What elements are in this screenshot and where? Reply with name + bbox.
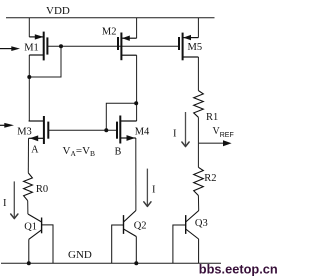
svg-text:VDD: VDD	[46, 5, 70, 17]
wire M4 diode loop to gate bus	[106, 103, 136, 130]
svg-text:R0: R0	[36, 184, 48, 195]
svg-text:M5: M5	[188, 42, 203, 53]
wire gate bus M1-M2-M5	[47, 45, 178, 47]
svg-text:Q1: Q1	[24, 222, 37, 233]
wire node B down to Q2 collector	[135, 138, 137, 211]
transistor M4	[117, 116, 137, 144]
wire GND rail	[1, 262, 221, 264]
svg-text:I: I	[173, 129, 177, 140]
wire M2 drain down to node	[136, 55, 138, 121]
svg-text:bbs.eetop.cn: bbs.eetop.cn	[199, 262, 278, 277]
svg-text:R2: R2	[204, 173, 216, 184]
wire gate bus M3-M4	[48, 129, 117, 131]
svg-text:A: A	[31, 144, 39, 155]
wire R0 to Q1 collector	[27, 201, 29, 214]
wire node A down to R0	[27, 138, 29, 173]
wire M2 source to VDD	[136, 18, 138, 39]
wire VDD rail	[6, 17, 215, 19]
transistor Q1	[28, 214, 53, 263]
svg-text:Q3: Q3	[195, 218, 208, 229]
wire M5 drain down to R1	[197, 57, 199, 91]
arrow current I right branch	[182, 112, 189, 147]
transistor M5	[179, 33, 198, 61]
resistor R0	[24, 173, 33, 201]
arrow current I middle branch	[144, 169, 151, 207]
svg-text:I: I	[3, 198, 7, 209]
transistor Q2	[112, 211, 137, 264]
transistor M3	[29, 116, 49, 144]
svg-text:M1: M1	[24, 42, 39, 53]
wire M5 source to VDD	[197, 18, 199, 38]
node dot M3-M4 gate junction	[104, 128, 108, 132]
svg-text:I: I	[152, 185, 156, 196]
svg-text:M2: M2	[102, 26, 117, 37]
node dot M1 drain junction	[27, 75, 31, 79]
node dot M1 diode junction	[59, 44, 63, 48]
arrow VREF output	[198, 140, 231, 146]
node dot Q2 emitter GND	[134, 261, 138, 265]
wire M1 source to VDD	[28, 18, 30, 37]
svg-text:M4: M4	[135, 127, 150, 138]
node dot M2-M4 drain junction	[134, 101, 138, 105]
transistor M1	[29, 32, 47, 61]
transistor M2	[118, 33, 137, 61]
resistor R2	[194, 167, 204, 195]
arrow input pointer at M3	[0, 123, 14, 128]
svg-text:M3: M3	[17, 127, 32, 138]
wire M1 gate-drain loop	[29, 46, 61, 77]
resistor R1	[194, 91, 204, 118]
svg-text:GND: GND	[68, 249, 92, 261]
wire M1 drain down to M3 drain	[28, 55, 30, 121]
transistor Q3	[173, 211, 199, 264]
svg-text:Q2: Q2	[134, 221, 147, 232]
arrow current I left branch	[11, 181, 18, 218]
wire R1 to Q3 collector	[197, 117, 199, 167]
svg-text:R1: R1	[206, 112, 218, 123]
svg-text:B: B	[115, 147, 122, 158]
arrow input pointer at M1	[0, 46, 20, 51]
wire R2 to Q3 collector	[197, 196, 199, 211]
node dot Q1 emitter GND	[27, 261, 31, 265]
